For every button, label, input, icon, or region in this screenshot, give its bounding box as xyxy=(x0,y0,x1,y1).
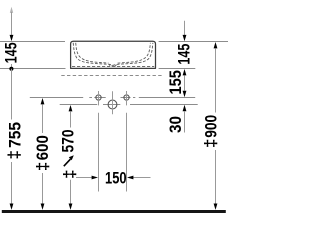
wire: top rim extension line left xyxy=(0,41,65,43)
dimension line 145 left (vertical at x=11.4) xyxy=(10,7,13,13)
svg-text:145: 145 xyxy=(175,44,194,65)
wire: dashed countertop line xyxy=(61,75,161,77)
svg-text:145: 145 xyxy=(2,42,21,63)
svg-text:155: 155 xyxy=(166,70,185,95)
svg-text:‡: ‡ xyxy=(4,150,23,159)
faucet hole right circle xyxy=(124,95,129,100)
wire: 570 dimension line lower segment xyxy=(70,180,72,204)
wire: 755 dimension line upper segment xyxy=(11,69,13,120)
wire: basin bottom extension line right xyxy=(159,68,196,70)
dimension 150: right tail and arrow xyxy=(133,177,150,179)
arrow down to faucet axis (155) xyxy=(183,91,187,97)
arrow down to floor (600) xyxy=(41,204,45,210)
wire: drain axis line xyxy=(60,104,198,106)
wire: left hole vertical axis / 150 extension xyxy=(98,91,100,192)
drain hole circle xyxy=(108,100,117,109)
wire: drain hole vertical axis xyxy=(112,91,114,114)
drain detail dashed xyxy=(109,64,117,66)
arrow down to floor (900) xyxy=(214,204,218,210)
wire: 900 dimension line lower segment xyxy=(215,150,217,204)
faucet hole left circle xyxy=(96,95,101,100)
svg-text:‡: ‡ xyxy=(33,162,52,171)
svg-text:600: 600 xyxy=(33,135,52,160)
wire: right hole vertical axis / 150 extension xyxy=(126,91,128,192)
dimension line 570 (vertical at x=70.3) xyxy=(69,105,73,111)
wire: faucet-hole axis line xyxy=(30,97,195,99)
symbol diagonal arrow for 570 xyxy=(64,159,71,166)
svg-text:30: 30 xyxy=(166,116,185,133)
floor line xyxy=(2,210,226,213)
arrow down to floor (570) xyxy=(69,204,73,210)
dimension 150: left tail and arrow xyxy=(76,177,92,179)
basin inner bowl dashed contour xyxy=(73,43,153,66)
basin outline xyxy=(71,41,156,68)
svg-text:570: 570 xyxy=(58,130,77,153)
svg-text:900: 900 xyxy=(201,115,220,138)
svg-text:‡: ‡ xyxy=(201,139,220,148)
arrow down to rim line xyxy=(10,35,14,41)
basin inner bowl second dashed contour xyxy=(76,43,151,63)
basin interior bottom dashed line xyxy=(72,65,154,67)
wire: 155 dimension line xyxy=(184,75,186,90)
wire: 755 dimension line lower segment xyxy=(11,162,13,204)
wire: 30 dimension line tail xyxy=(184,111,186,132)
wire: 600 dimension line lower segment xyxy=(42,173,44,204)
dimension line 145/155/30 right chain (vertical at x=184.3) xyxy=(184,21,186,35)
arrow down to floor (755) xyxy=(10,204,14,210)
svg-text:755: 755 xyxy=(5,122,24,148)
dimension line 600 (vertical at x=42.6) xyxy=(41,98,45,104)
wire: basin bottom extension line left xyxy=(0,68,66,70)
dimension line 900 (vertical at x=215.9) xyxy=(214,42,218,48)
wire: top rim extension line right xyxy=(159,41,228,43)
node: dot junction at basin bottom xyxy=(9,67,13,71)
svg-text:150: 150 xyxy=(105,168,127,187)
arrow up to basin bottom line (145/155) xyxy=(183,69,187,75)
arrow down to rim line (145 right) xyxy=(183,35,187,41)
arrow up to drain axis (30) xyxy=(183,105,187,111)
